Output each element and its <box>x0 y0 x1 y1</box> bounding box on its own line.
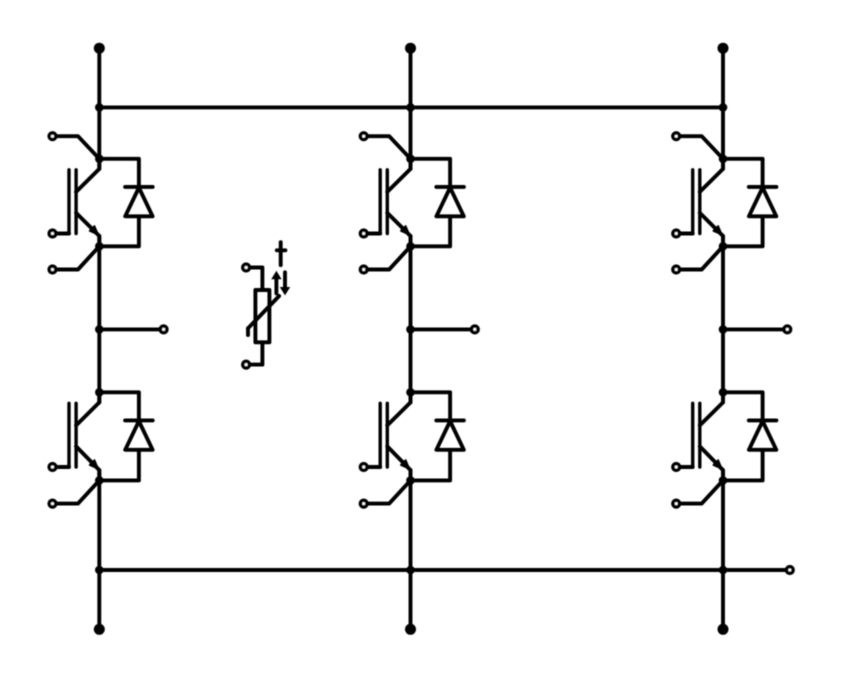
diode D3 (anti-parallel with Q3) <box>411 159 464 247</box>
Q5 body bar <box>698 170 701 234</box>
Q1 emitter lead <box>76 213 99 246</box>
wire: Q4 collector node to D4 cathode <box>411 392 451 420</box>
Q6 body bar <box>698 403 701 467</box>
leg U: half-bridge phase U <box>49 43 167 635</box>
junction: Q4 collector node <box>406 388 415 397</box>
IGBT Q6 (lower, leg W) <box>693 392 723 480</box>
wire: DC+ terminal down through bus to Q collector (leg V) <box>409 48 413 169</box>
Q6 collector lead <box>700 392 723 425</box>
IGBT Q2 (lower, leg U) <box>69 392 99 480</box>
diode D6 (anti-parallel with Q6) <box>723 392 776 480</box>
D2 anode triangle <box>125 421 152 450</box>
Q3 gate bar <box>379 170 382 234</box>
D3 anode triangle <box>436 188 463 217</box>
Q2 body bar <box>74 403 77 467</box>
Q5 emitter lead <box>700 213 723 246</box>
wire: upper emitter to lower collector (leg U midpoint) <box>97 236 101 402</box>
wire: D1 anode to Q1 emitter node <box>99 216 139 246</box>
wire: lower emitter down through DC- bus to terminal (leg U) <box>97 470 101 629</box>
wire: Q3 collector node to D3 cathode <box>411 159 451 187</box>
gate terminal of Q1 <box>49 230 69 237</box>
wire: Q2 collector node to D2 cathode <box>99 392 139 420</box>
junction: phase W output node <box>719 325 728 334</box>
junction: Q1 emitter node <box>95 242 104 251</box>
Q2 gate bar <box>67 403 70 467</box>
DC+ terminal (leg U) <box>94 43 105 54</box>
DC- bus auxiliary terminal <box>787 567 794 574</box>
junction: phase U output node <box>95 325 104 334</box>
Q5 gate bar <box>691 170 694 234</box>
wire: phase W output <box>723 327 784 331</box>
wire: Q5 collector node to D5 cathode <box>723 159 763 187</box>
wire: DC+ terminal down through bus to Q collector (leg W) <box>721 48 725 169</box>
wire: upper emitter to lower collector (leg W midpoint) <box>721 236 725 402</box>
wire: lower emitter down through DC- bus to terminal (leg W) <box>721 470 725 629</box>
Q4 body bar <box>386 403 389 467</box>
junction: Q1 collector node <box>95 155 104 164</box>
DC+ terminal (leg W) <box>718 43 729 54</box>
auxiliary emitter terminal of Q2 <box>49 480 99 507</box>
Q3 emitter arrow <box>401 226 409 234</box>
Q3 collector lead <box>387 159 410 192</box>
Q5 collector lead <box>700 159 723 192</box>
junction: Q4 emitter node <box>406 476 415 485</box>
IGBT Q1 (upper, leg U) <box>69 159 99 247</box>
wire: DC- bus <box>99 568 786 572</box>
Q2 emitter lead <box>76 446 99 480</box>
wire: RT1 body to bottom terminal <box>249 342 262 364</box>
wire: RT1 top terminal to body <box>249 268 262 291</box>
auxiliary collector terminal of Q5 <box>673 133 723 159</box>
junction: DC- bus at leg V <box>406 566 415 575</box>
RT1 bottom terminal <box>243 361 250 368</box>
junction: DC+ bus at leg W <box>719 103 728 112</box>
D5 cathode bar <box>749 185 777 189</box>
wire: upper emitter to lower collector (leg V midpoint) <box>409 236 413 402</box>
IGBT Q4 (lower, leg V) <box>380 392 410 480</box>
IGBT Q5 (upper, leg W) <box>693 159 723 247</box>
D3 cathode bar <box>436 185 464 189</box>
auxiliary collector terminal of Q1 <box>49 133 99 159</box>
phase W output terminal <box>784 326 791 333</box>
DC- terminal (leg U) <box>94 624 105 635</box>
wire: Q1 collector node to D1 cathode <box>99 159 139 187</box>
gate terminal of Q5 <box>673 230 693 237</box>
DC+ terminal (leg V) <box>405 43 416 54</box>
junction: DC+ bus at leg V <box>406 103 415 112</box>
junction: Q2 collector node <box>95 388 104 397</box>
Q1 emitter arrow <box>90 226 98 234</box>
Q1 gate bar <box>67 170 70 234</box>
DC- terminal (leg V) <box>405 624 416 635</box>
RT1 body rectangle <box>255 290 269 342</box>
Q4 emitter arrow <box>401 460 409 468</box>
gate terminal of Q2 <box>49 464 69 471</box>
RT1 top terminal <box>243 264 250 271</box>
diode D5 (anti-parallel with Q5) <box>723 159 776 247</box>
D1 anode triangle <box>125 188 152 217</box>
Q4 collector lead <box>387 392 410 425</box>
Q5 emitter arrow <box>714 226 722 234</box>
auxiliary emitter terminal of Q1 <box>49 246 99 273</box>
Q4 emitter lead <box>387 446 410 480</box>
diode D4 (anti-parallel with Q4) <box>411 392 464 480</box>
resistance down arrow <box>283 272 287 287</box>
junction: phase V output node <box>406 325 415 334</box>
wire: D3 anode to Q3 emitter node <box>411 216 451 246</box>
junction: DC+ bus at leg U <box>95 103 104 112</box>
wire: DC+ bus <box>99 105 723 109</box>
temperature symbol t <box>279 242 283 265</box>
wire: phase V output <box>411 327 472 331</box>
wire: DC+ terminal down through bus to Q collector (leg U) <box>97 48 101 169</box>
auxiliary emitter terminal of Q6 <box>673 480 723 507</box>
Q3 body bar <box>386 170 389 234</box>
gate terminal of Q6 <box>673 464 693 471</box>
junction: Q6 collector node <box>719 388 728 397</box>
junction: Q2 emitter node <box>95 476 104 485</box>
gate terminal of Q4 <box>360 464 380 471</box>
junction: Q5 collector node <box>719 155 728 164</box>
Q6 emitter lead <box>700 446 723 480</box>
junction: Q3 emitter node <box>406 242 415 251</box>
NTC thermistor RT1 <box>243 242 290 368</box>
diode D2 (anti-parallel with Q2) <box>99 392 152 480</box>
D1 cathode bar <box>125 185 153 189</box>
junction: DC- bus at leg W <box>719 566 728 575</box>
leg V: half-bridge phase V <box>360 43 478 635</box>
junction: Q3 collector node <box>406 155 415 164</box>
junction: Q6 emitter node <box>719 476 728 485</box>
gate terminal of Q3 <box>360 230 380 237</box>
wire: D5 anode to Q5 emitter node <box>723 216 763 246</box>
leg W: half-bridge phase W <box>673 43 791 635</box>
Q1 body bar <box>74 170 77 234</box>
Q4 gate bar <box>379 403 382 467</box>
auxiliary emitter terminal of Q3 <box>360 246 410 273</box>
RT1 diagonal foot <box>246 328 250 335</box>
wire: phase U output <box>99 327 160 331</box>
IGBT Q3 (upper, leg V) <box>380 159 410 247</box>
D4 cathode bar <box>436 418 464 422</box>
D6 cathode bar <box>749 418 777 422</box>
phase V output terminal <box>472 326 479 333</box>
Q6 gate bar <box>691 403 694 467</box>
auxiliary emitter terminal of Q4 <box>360 480 410 507</box>
Q6 emitter arrow <box>714 460 722 468</box>
auxiliary collector terminal of Q3 <box>360 133 410 159</box>
Q2 emitter arrow <box>90 460 98 468</box>
Q1 collector lead <box>76 159 99 192</box>
junction: Q5 emitter node <box>719 242 728 251</box>
DC- terminal (leg W) <box>718 624 729 635</box>
Q2 collector lead <box>76 392 99 425</box>
D6 anode triangle <box>749 421 776 450</box>
wire: D2 anode to Q2 emitter node <box>99 450 139 481</box>
Q3 emitter lead <box>387 213 410 246</box>
diode D1 (anti-parallel with Q1) <box>99 159 152 247</box>
RT1 variable-resistance diagonal <box>248 296 279 328</box>
junction: DC- bus at leg U <box>95 566 104 575</box>
D4 anode triangle <box>436 421 463 450</box>
wire: D6 anode to Q6 emitter node <box>723 450 763 481</box>
wire: lower emitter down through DC- bus to terminal (leg V) <box>409 470 413 629</box>
D2 cathode bar <box>125 418 153 422</box>
D5 anode triangle <box>749 188 776 217</box>
phase U output terminal <box>160 326 167 333</box>
wire: Q6 collector node to D6 cathode <box>723 392 763 420</box>
wire: D4 anode to Q4 emitter node <box>411 450 451 481</box>
temperature up arrow <box>274 279 278 294</box>
auxiliary emitter terminal of Q5 <box>673 246 723 273</box>
